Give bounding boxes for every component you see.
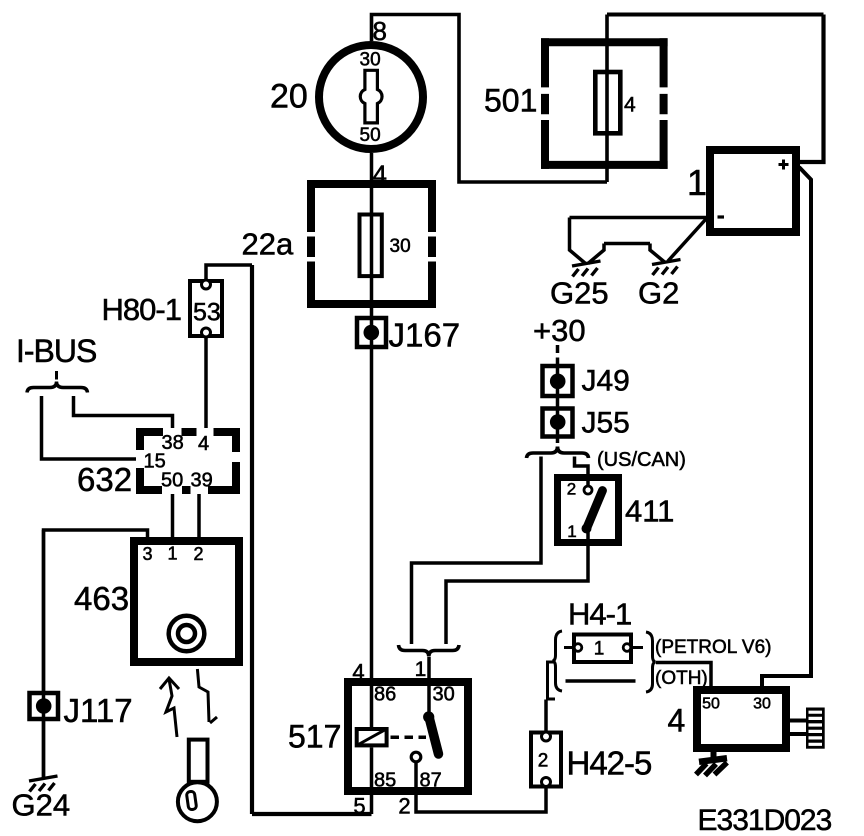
svg-text:53: 53 xyxy=(193,299,221,327)
svg-text:1: 1 xyxy=(415,658,427,681)
wire: relay pin 2 to H42-5 xyxy=(416,762,546,812)
ignition switch 20 circle xyxy=(319,45,423,149)
svg-text:+30: +30 xyxy=(533,313,586,348)
ignition key symbol xyxy=(360,70,382,123)
receiver module 463 box xyxy=(134,541,239,662)
junction J117 xyxy=(30,693,59,719)
wire: starter pinion links xyxy=(790,721,806,735)
battery plus sign xyxy=(779,160,789,170)
svg-text:1: 1 xyxy=(594,639,605,660)
svg-text:30: 30 xyxy=(753,696,771,713)
relay coil xyxy=(357,729,387,745)
svg-text:G25: G25 xyxy=(550,276,609,311)
wire: left tall vertical xyxy=(250,265,254,814)
svg-text:J167: J167 xyxy=(389,317,461,354)
svg-text:E331D023: E331D023 xyxy=(698,804,832,836)
svg-text:22a: 22a xyxy=(242,227,294,262)
fuse 22a element xyxy=(360,215,382,277)
wire: H80-1 to 632 pin 4 xyxy=(204,338,208,428)
svg-text:30: 30 xyxy=(433,684,455,706)
relay contact 87 circle xyxy=(411,752,421,762)
connector H42-5 xyxy=(531,733,561,787)
fuse box 22a dashed border xyxy=(307,180,436,308)
battery minus sign xyxy=(718,215,725,218)
svg-text:86: 86 xyxy=(374,684,396,706)
svg-text:1: 1 xyxy=(687,162,707,203)
svg-text:H42-5: H42-5 xyxy=(567,745,652,782)
svg-text:87: 87 xyxy=(420,770,442,792)
key bow circle xyxy=(178,782,217,821)
wire: through J117 xyxy=(42,530,46,779)
svg-text:3: 3 xyxy=(142,544,152,564)
US/CAN bracket xyxy=(527,447,589,459)
411 switch lever xyxy=(587,491,603,528)
control module 632 dashed box xyxy=(136,428,240,494)
svg-text:2: 2 xyxy=(567,480,576,499)
svg-text:4: 4 xyxy=(668,703,686,739)
wire: battery plus riser xyxy=(799,15,824,163)
transponder signal bolt right xyxy=(197,669,209,722)
transponder signal bolt left xyxy=(160,678,179,689)
connector H4-1 xyxy=(574,635,631,663)
relay bracket above pin 1 xyxy=(399,645,460,657)
key head rectangle xyxy=(189,740,208,782)
fuse 501 element xyxy=(595,72,620,133)
keyhole in bow xyxy=(186,791,196,810)
411 pin 2 contact circle xyxy=(584,486,592,494)
wire: starter ground stub xyxy=(711,750,717,759)
wire: G25 funnel xyxy=(570,218,605,264)
svg-text:2: 2 xyxy=(538,751,549,772)
wire: funnel joining segment xyxy=(604,242,650,246)
battery 1 box xyxy=(710,150,796,232)
svg-text:2: 2 xyxy=(193,544,203,564)
relay dashed actuator line xyxy=(391,736,427,740)
svg-text:50: 50 xyxy=(702,696,720,713)
svg-text:J49: J49 xyxy=(582,365,630,398)
wire: battery output diagonal to right-side drop xyxy=(762,167,811,686)
svg-text:8: 8 xyxy=(373,16,387,46)
wire: main vertical ignition to relay coil xyxy=(370,153,374,727)
junction J49 xyxy=(543,366,573,396)
I-BUS bracket xyxy=(27,382,88,393)
wire: 632 pin 39 to 463 pin 2 xyxy=(197,494,201,537)
svg-text:4: 4 xyxy=(198,433,209,455)
wire: relay pin 1 into switch xyxy=(427,657,431,716)
svg-text:50: 50 xyxy=(360,125,381,146)
wire: vertical through fuse 501 xyxy=(605,15,609,183)
wire: H80-1 top link xyxy=(206,265,252,280)
svg-text:50: 50 xyxy=(161,470,183,492)
relay switch lever xyxy=(429,717,439,754)
svg-text:517: 517 xyxy=(288,719,341,755)
svg-text:501: 501 xyxy=(484,83,537,119)
svg-text:(PETROL V6): (PETROL V6) xyxy=(655,637,772,658)
svg-text:4: 4 xyxy=(373,160,387,190)
svg-text:632: 632 xyxy=(77,461,132,498)
svg-text:85: 85 xyxy=(374,770,396,792)
svg-text:2: 2 xyxy=(398,794,410,819)
wire: G2 funnel xyxy=(650,219,706,262)
svg-text:H4-1: H4-1 xyxy=(568,597,631,632)
starter ground xyxy=(696,758,727,775)
starter pinion xyxy=(806,708,825,749)
wire: 411 pin 1 down to relay bracket xyxy=(446,532,588,644)
square bracket to H42-5 xyxy=(548,662,556,699)
wire: I-BUS left leg to 632 pin 15 xyxy=(42,396,137,459)
svg-text:20: 20 xyxy=(270,78,308,116)
svg-text:4: 4 xyxy=(624,94,636,117)
ground G25 xyxy=(572,261,601,277)
wire: US/CAN bracket left leg down to relay bracket xyxy=(412,457,542,645)
wire: OTH alternative plain wire xyxy=(566,679,636,683)
svg-text:(OTH): (OTH) xyxy=(655,668,708,689)
wire: J117 to G24 xyxy=(42,719,46,779)
fuse box 501 dashed border xyxy=(541,38,668,169)
wire: J55 to US/CAN bracket xyxy=(556,438,560,449)
junction J167 xyxy=(357,318,386,347)
wire: H4-1 connector stubs xyxy=(564,646,643,649)
wire: J49 to J55 xyxy=(556,366,560,438)
svg-text:G24: G24 xyxy=(12,788,71,823)
svg-text:G2: G2 xyxy=(638,276,679,311)
connector H80-1 xyxy=(190,281,222,336)
junction J55 xyxy=(543,409,573,437)
wire: relay coil to bottom bus xyxy=(370,748,374,815)
svg-text:I-BUS: I-BUS xyxy=(16,333,96,369)
ground G2 xyxy=(652,260,681,276)
switch 411 box xyxy=(558,478,619,543)
wire: bottom bus left xyxy=(252,812,372,816)
curly brace left of H4-1 xyxy=(553,631,563,691)
svg-text:463: 463 xyxy=(74,580,129,617)
wire: battery minus horizontal xyxy=(570,216,707,220)
wire: I-BUS right leg to 632 pin 38 xyxy=(74,396,173,428)
I-BUS dash tick xyxy=(55,371,58,380)
svg-text:30: 30 xyxy=(390,236,411,257)
svg-text:39: 39 xyxy=(191,470,213,492)
svg-text:4: 4 xyxy=(352,660,364,685)
starter motor 4 box xyxy=(697,690,786,748)
curly brace right of H4-1 xyxy=(646,632,656,692)
wire: ignition pin 8 to fuse 501 bottom xyxy=(372,15,608,183)
wire: US/CAN bracket right leg to 411 pin 2 xyxy=(575,457,589,487)
463 antenna double circle xyxy=(169,616,205,652)
svg-text:1: 1 xyxy=(567,522,576,541)
relay 517 box xyxy=(348,682,468,791)
ground G24 xyxy=(29,776,58,792)
svg-text:(US/CAN): (US/CAN) xyxy=(597,449,686,471)
wire: top horizontal to battery plus riser xyxy=(607,13,824,17)
wire: 463 pin 3 to J117 xyxy=(44,530,148,691)
svg-text:1: 1 xyxy=(167,544,177,564)
wire: +30 dashed feed xyxy=(556,345,560,366)
wire: 632 pin 50 to 463 pin 1 xyxy=(171,494,175,537)
svg-text:J117: J117 xyxy=(64,692,133,729)
wire: H4-1 output to starter pin 50 xyxy=(656,663,711,687)
svg-text:H80-1: H80-1 xyxy=(102,292,181,327)
svg-text:J55: J55 xyxy=(582,407,630,440)
wire: H42-5 top to H4-1 bracket xyxy=(544,700,548,732)
svg-text:5: 5 xyxy=(353,794,365,819)
svg-text:411: 411 xyxy=(625,494,674,529)
svg-text:30: 30 xyxy=(360,50,381,71)
